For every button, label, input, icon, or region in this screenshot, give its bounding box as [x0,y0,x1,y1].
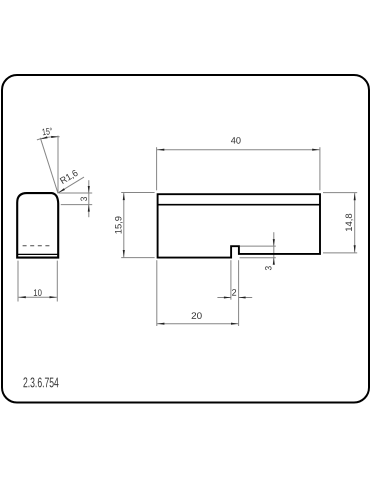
svg-text:10: 10 [33,287,42,298]
svg-text:15,9: 15,9 [112,216,123,234]
svg-text:3: 3 [78,197,89,202]
svg-text:15°: 15° [41,125,53,137]
svg-text:14,8: 14,8 [343,213,354,231]
svg-text:20: 20 [191,310,202,321]
svg-text:3: 3 [263,266,274,271]
svg-text:2.3.6.754: 2.3.6.754 [23,374,59,390]
svg-text:2: 2 [232,287,237,298]
svg-text:40: 40 [231,135,241,146]
